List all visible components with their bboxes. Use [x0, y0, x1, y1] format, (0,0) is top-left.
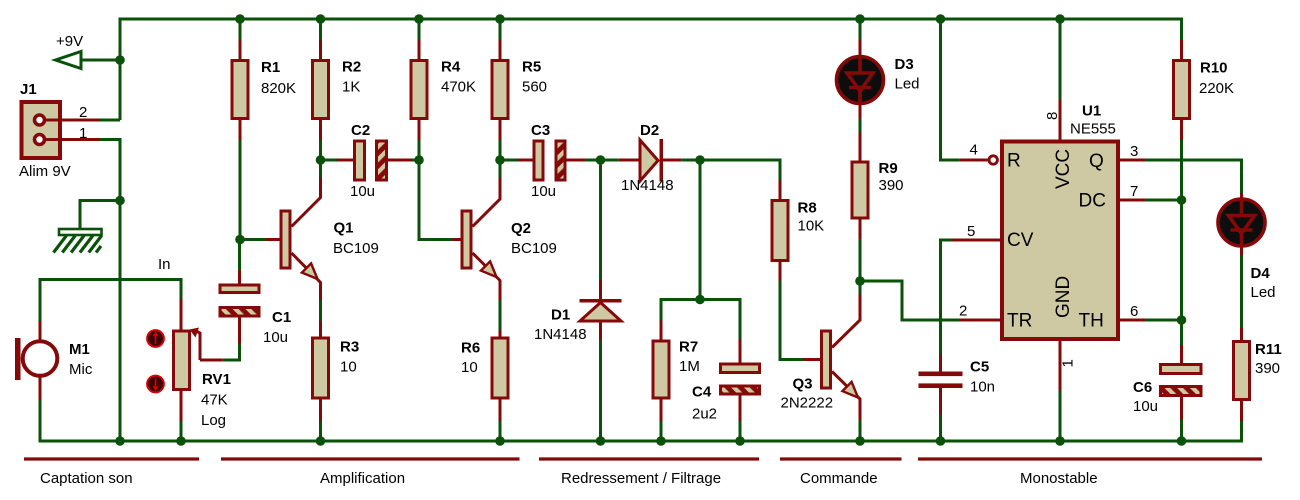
junction: R7 bottom	[656, 436, 666, 446]
wire: rail to D3	[859, 19, 862, 40]
pin 3 Q of U1	[1120, 159, 1145, 162]
power +9V terminal	[56, 52, 82, 69]
wire: DC to TH net	[1180, 200, 1183, 320]
wire: D2 cathode node down to filter	[699, 160, 702, 300]
svg-text:M1: M1	[69, 341, 90, 358]
wire: R3 bottom to rail	[319, 421, 322, 441]
svg-text:R4: R4	[441, 59, 461, 76]
wire: Q output to D4	[1145, 160, 1242, 193]
wire: R1 bottom to Q1 base node	[239, 140, 242, 240]
junction: TH node	[1177, 315, 1187, 325]
wire: rail to R2	[319, 19, 322, 40]
wire: node to R7	[661, 300, 700, 321]
wire: Q3 collector node to TR pin	[860, 281, 960, 320]
junction: ground tap	[115, 196, 125, 206]
svg-text:CV: CV	[1007, 230, 1034, 251]
svg-text:6: 6	[1130, 303, 1138, 320]
svg-text:7: 7	[1130, 183, 1138, 200]
junction: D2 cathode node	[695, 155, 705, 165]
wire: J1 pin1 to ground rail	[100, 140, 120, 442]
svg-text:R5: R5	[522, 59, 541, 76]
capacitor C1	[220, 270, 259, 344]
wire: bottom ground rail	[40, 400, 1242, 441]
junction: C5 bottom	[936, 436, 946, 446]
wire: C1 top to base node	[238, 240, 241, 271]
separator Commande	[780, 457, 902, 460]
svg-text:1K: 1K	[342, 79, 360, 96]
svg-text:D1: D1	[551, 307, 570, 324]
transistor Q1	[266, 178, 321, 301]
capacitor C6	[1161, 345, 1202, 419]
svg-text:4: 4	[970, 142, 978, 159]
svg-text:47K: 47K	[201, 392, 228, 409]
svg-text:Mic: Mic	[69, 361, 93, 378]
junction: R1 top	[235, 14, 245, 24]
svg-text:1N4148: 1N4148	[621, 177, 674, 194]
wire: Q3 emitter to rail	[859, 420, 862, 441]
diode D1	[580, 280, 622, 340]
svg-text:C1: C1	[272, 309, 291, 326]
svg-text:Commande: Commande	[800, 470, 878, 487]
wire: +9V arrow to rail	[81, 59, 120, 62]
pin 2 TR of U1	[960, 319, 1001, 322]
junction: Q1 base node	[235, 235, 245, 245]
svg-text:Amplification: Amplification	[320, 470, 405, 487]
wire: D4 to R11	[1240, 256, 1243, 329]
junction: R2/C2/Q1 collector	[316, 155, 326, 165]
resistor R4	[411, 40, 427, 140]
wire: R2 bottom to C2 node	[319, 140, 322, 160]
junction: R5/C3/Q2 collector	[495, 155, 505, 165]
pin 5 CV of U1	[952, 239, 1001, 242]
wire: GND pin to rail	[1059, 390, 1062, 441]
svg-text:GND: GND	[1053, 276, 1074, 318]
svg-text:R11: R11	[1255, 341, 1282, 358]
svg-text:Q: Q	[1089, 151, 1104, 172]
wire: R5 bottom to node	[499, 140, 502, 160]
resistor R11	[1234, 328, 1250, 421]
wire: Q1 collector to R2/C2 node	[319, 160, 322, 178]
svg-text:D4: D4	[1251, 265, 1271, 282]
svg-text:2: 2	[79, 104, 87, 121]
wire: node to C4	[700, 300, 740, 339]
junction: R5 top	[495, 14, 505, 24]
resistor R1	[232, 40, 248, 140]
junction: R9/Q3 collector node	[855, 276, 865, 286]
wire: rail to R1	[239, 19, 242, 40]
svg-text:Alim 9V: Alim 9V	[19, 163, 71, 180]
capacitor C3	[517, 141, 585, 180]
wire: VCC pin to rail	[1059, 19, 1062, 100]
svg-text:10: 10	[461, 359, 478, 376]
junction: D3 top	[855, 14, 865, 24]
wire: C4 bottom to rail	[739, 421, 742, 441]
wire: ground stub	[80, 201, 120, 230]
potentiometer RV1	[174, 299, 223, 421]
svg-text:Q1: Q1	[334, 220, 354, 237]
svg-text:10: 10	[340, 359, 357, 376]
resistor R9	[852, 133, 868, 240]
led D3	[837, 40, 884, 119]
separator Redressement / Filtrage	[539, 457, 759, 460]
junction: VCC top	[1055, 14, 1065, 24]
svg-text:TR: TR	[1007, 311, 1032, 332]
wire: mic to In node	[40, 280, 181, 322]
junction: Q3 emitter bottom	[855, 436, 865, 446]
svg-text:2u2: 2u2	[692, 406, 717, 423]
svg-text:VCC: VCC	[1053, 149, 1074, 189]
wire: R8 bottom to Q3 base	[780, 281, 803, 360]
svg-text:C5: C5	[970, 359, 989, 376]
wire: D2 cathode to node	[682, 159, 700, 162]
svg-text:2N2222: 2N2222	[781, 395, 834, 412]
timer U1 NE555 body	[1002, 142, 1118, 340]
junction: R6 bottom	[495, 436, 505, 446]
svg-text:R7: R7	[679, 339, 698, 356]
junction: R2 top	[316, 14, 326, 24]
transistor Q3	[803, 294, 860, 420]
junction: GND bottom	[1055, 436, 1065, 446]
svg-text:Q2: Q2	[511, 220, 531, 237]
svg-text:3: 3	[1130, 143, 1138, 160]
svg-text:Monostable: Monostable	[1020, 470, 1098, 487]
junction: C3/D1/D2 node	[596, 155, 606, 165]
resistor R8	[772, 181, 788, 281]
resistor R5	[492, 40, 508, 140]
svg-text:820K: 820K	[261, 80, 296, 97]
wire: CV pin to C5	[941, 240, 952, 354]
resistor R3	[313, 321, 329, 421]
wire: node down to D1	[599, 160, 602, 280]
svg-text:1M: 1M	[679, 358, 700, 375]
svg-text:C2: C2	[351, 122, 370, 139]
wire: node to C2	[321, 159, 338, 162]
svg-text:BC109: BC109	[333, 240, 379, 257]
wire: J1 pin2 to +9V net	[100, 119, 120, 122]
junction: C6 bottom	[1177, 436, 1187, 446]
svg-text:Led: Led	[895, 76, 920, 93]
separator Captation son	[24, 457, 199, 460]
svg-text:220K: 220K	[1199, 80, 1234, 97]
wire: R7 bottom to rail	[660, 421, 663, 441]
wire: TH node to C6	[1180, 320, 1183, 345]
wire: rail to R4	[418, 19, 421, 40]
svg-text:390: 390	[1255, 360, 1280, 377]
transistor Q2	[453, 178, 501, 301]
wire: +9V top supply rail	[120, 19, 1182, 120]
junction: RV1 bottom	[176, 436, 186, 446]
resistor R6	[492, 330, 508, 421]
capacitor C2	[337, 141, 412, 180]
svg-text:10u: 10u	[350, 183, 375, 200]
separator Monostable	[918, 457, 1262, 460]
wire: RV1 bottom to ground rail	[180, 421, 183, 441]
svg-text:10u: 10u	[531, 183, 556, 200]
svg-text:10u: 10u	[263, 329, 288, 346]
wire: Q2 collector to R5/C3 node	[499, 160, 502, 178]
svg-text:U1: U1	[1082, 103, 1101, 120]
resistor R7	[653, 321, 669, 422]
junction: C4 bottom	[735, 436, 745, 446]
junction: DC node	[1177, 195, 1187, 205]
wire: Q1 emitter to R3	[319, 300, 322, 321]
wire: node to C3	[500, 159, 517, 162]
svg-text:8: 8	[1044, 112, 1061, 120]
resistor R2	[313, 40, 329, 140]
junction: +9V tap	[115, 55, 125, 65]
capacitor C4	[721, 339, 760, 422]
actuator button up of RV1	[147, 330, 164, 347]
wire: node to Q2 base	[419, 160, 453, 240]
pin 8 VCC of U1	[1059, 100, 1062, 140]
svg-text:+9V: +9V	[56, 33, 83, 50]
svg-text:Q3: Q3	[793, 376, 813, 393]
junction: reset net top	[936, 14, 946, 24]
wire: TH pin to R10/C6 net	[1145, 319, 1182, 322]
svg-text:R6: R6	[461, 340, 480, 357]
junction: R7/C4 node	[695, 295, 705, 305]
svg-text:R: R	[1007, 151, 1021, 172]
junction: D1 bottom	[596, 436, 606, 446]
wire: Q2 emitter to R6	[499, 301, 502, 331]
svg-text:DC: DC	[1079, 191, 1106, 212]
svg-text:1: 1	[1060, 359, 1077, 367]
led D4	[1218, 193, 1265, 256]
wire: R6 bottom to rail	[499, 421, 502, 441]
svg-text:In: In	[158, 256, 171, 273]
svg-text:C6: C6	[1133, 379, 1152, 396]
connector J1	[22, 102, 61, 158]
wire: RV1 wiper to C1	[223, 344, 240, 360]
svg-text:10K: 10K	[798, 218, 825, 235]
svg-text:560: 560	[522, 79, 547, 96]
wire: Q3 collector to R9 node	[859, 281, 862, 294]
svg-text:R8: R8	[798, 200, 817, 217]
svg-text:2: 2	[959, 303, 967, 320]
wire: base wire Q1	[240, 238, 266, 241]
wire: R4 bottom to node	[418, 140, 421, 160]
svg-text:C3: C3	[531, 122, 550, 139]
svg-text:R9: R9	[879, 160, 898, 177]
ground	[54, 229, 102, 253]
svg-text:NE555: NE555	[1070, 121, 1116, 138]
svg-text:10n: 10n	[970, 379, 995, 396]
svg-text:Log: Log	[201, 412, 226, 429]
svg-text:R2: R2	[342, 59, 361, 76]
junction: R4/C2/Q2 base node	[414, 155, 424, 165]
pin 7 DC of U1	[1120, 199, 1145, 202]
wire: D1 anode to rail	[599, 340, 602, 441]
svg-text:BC109: BC109	[511, 240, 557, 257]
diode D2	[619, 139, 682, 182]
svg-text:R1: R1	[261, 59, 280, 76]
wire: C6 bottom to rail	[1180, 419, 1183, 441]
svg-text:TH: TH	[1079, 311, 1104, 332]
wire: rail to R pin of U1	[941, 19, 960, 160]
svg-text:D2: D2	[640, 122, 659, 139]
svg-text:R10: R10	[1200, 60, 1228, 77]
svg-text:470K: 470K	[441, 79, 476, 96]
wire: R10 bottom to DC node	[1180, 140, 1183, 200]
capacitor C5	[919, 354, 963, 414]
separator Amplification	[221, 457, 520, 460]
svg-text:C4: C4	[692, 384, 712, 401]
svg-text:Led: Led	[1251, 284, 1276, 301]
junction: R4 top	[414, 14, 424, 24]
wire: DC pin to R10/C6 net	[1145, 199, 1182, 202]
wire: D3 to R9	[859, 119, 862, 133]
svg-text:Captation son: Captation son	[40, 470, 133, 487]
wire: C5 bottom to rail	[939, 414, 942, 441]
microphone M1	[15, 321, 57, 400]
junction: R3 bottom	[316, 436, 326, 446]
svg-text:Redressement / Filtrage: Redressement / Filtrage	[561, 470, 721, 487]
pin 6 TH of U1	[1120, 319, 1145, 322]
svg-text:J1: J1	[20, 81, 37, 98]
wire: R9 bottom to collector node	[859, 239, 862, 281]
pin 4 R of U1	[960, 156, 998, 164]
junction: ground rail at J1 column	[115, 436, 125, 446]
svg-text:1: 1	[79, 125, 87, 142]
svg-text:390: 390	[879, 177, 904, 194]
svg-text:5: 5	[967, 223, 975, 240]
wire: C2 to R4 node	[412, 159, 419, 162]
svg-text:10u: 10u	[1133, 398, 1158, 415]
svg-text:1N4148: 1N4148	[534, 326, 587, 343]
actuator button down of RV1	[147, 376, 164, 393]
wire: node to D2 anode	[601, 159, 619, 162]
svg-text:D3: D3	[895, 56, 914, 73]
pin 1 GND of U1	[1059, 341, 1062, 390]
svg-text:R3: R3	[340, 339, 359, 356]
wire: C3 to D2 node	[585, 159, 601, 162]
svg-text:RV1: RV1	[202, 371, 231, 388]
resistor R10	[1174, 40, 1190, 140]
wire: D2 node to R8	[700, 160, 780, 181]
wire: rail to R5	[499, 19, 502, 40]
